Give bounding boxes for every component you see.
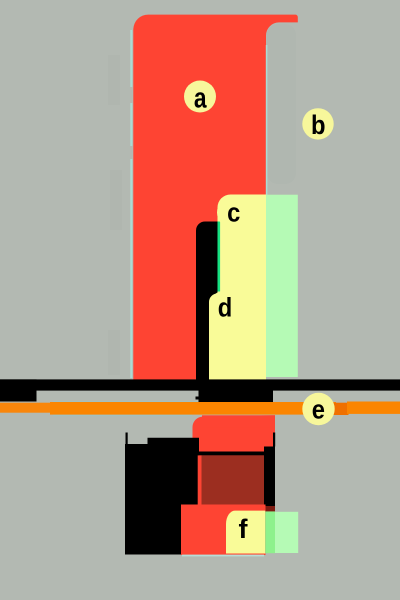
black mass building: [125, 433, 199, 555]
orange road main: [50, 402, 336, 415]
red bottom block: [181, 505, 266, 556]
orange road right: [347, 402, 400, 414]
orange road left thin: [0, 403, 53, 413]
label c: [217, 197, 249, 229]
red blob top edge fix: [202, 415, 275, 427]
cyan dashed line right of red: [266, 45, 268, 195]
region b darker block: [267, 24, 296, 184]
red blob below road: [193, 415, 276, 455]
green line on yellow edge: [218, 222, 221, 292]
label b: [302, 108, 333, 139]
black notch arrow: [196, 397, 200, 400]
black bar upper: [196, 222, 218, 380]
faint streak left 2: [110, 170, 122, 230]
black line over maroon: [198, 452, 267, 456]
label f: [226, 511, 258, 543]
svg-text:d: d: [218, 293, 233, 323]
svg-text:c: c: [227, 198, 240, 228]
svg-text:b: b: [311, 111, 326, 141]
yellow region c/d: [209, 195, 266, 380]
red strip between black and maroon: [198, 455, 202, 505]
cyan dashed line left of red: [130, 30, 132, 378]
faint streak left 1: [108, 55, 120, 105]
label e: [302, 393, 334, 425]
pale green column: [266, 195, 298, 377]
black bar right thin top: [273, 433, 275, 447]
orange road dark segment: [333, 403, 349, 415]
svg-text:a: a: [194, 83, 207, 114]
cyan line under red block: [182, 555, 264, 557]
blue casing below orange: [53, 415, 192, 417]
black block left end: [0, 379, 37, 401]
yellow region f: [226, 511, 265, 554]
red region a: [133, 15, 297, 380]
black band horizontal: [0, 379, 400, 390]
pale green block bottom: [275, 512, 298, 553]
label d: [209, 291, 241, 323]
faint streak left 3: [108, 330, 120, 375]
dark red small block: [266, 506, 276, 512]
black thick band center: [199, 390, 274, 403]
bright green block: [265, 511, 275, 553]
label a: [184, 81, 216, 113]
svg-text:e: e: [312, 395, 325, 425]
svg-text:f: f: [239, 514, 249, 544]
black bar right: [264, 447, 275, 507]
blue casing above orange: [53, 401, 198, 402]
maroon region: [202, 455, 265, 505]
